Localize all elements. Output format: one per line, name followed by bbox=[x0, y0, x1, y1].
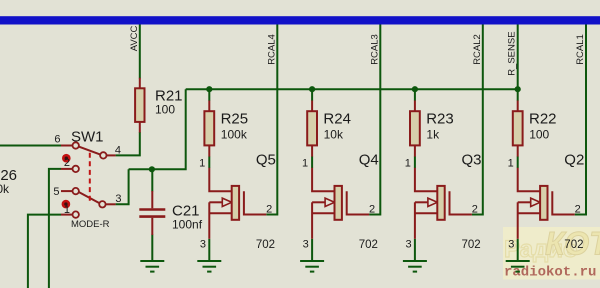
svg-text:MODE-R: MODE-R bbox=[71, 219, 110, 230]
svg-text:Q5: Q5 bbox=[256, 152, 276, 169]
svg-text:6: 6 bbox=[54, 133, 60, 145]
wire R22 bottom to Q2 pin bbox=[517, 156, 519, 168]
wire C21 bottom to ground bbox=[151, 235, 153, 261]
junction C21/switch node bbox=[149, 166, 155, 172]
wire RCAL2 vertical from bus to Q3 gate bbox=[472, 25, 483, 215]
lever pole B bbox=[79, 192, 100, 203]
svg-text:SW1: SW1 bbox=[71, 129, 104, 146]
junction R24 top bbox=[309, 86, 315, 92]
svg-text:RCAL1: RCAL1 bbox=[575, 34, 586, 65]
switch SW1 (DPDT) bbox=[61, 146, 116, 215]
svg-text:1: 1 bbox=[199, 158, 205, 170]
svg-text:2: 2 bbox=[64, 157, 70, 169]
actuator dot A bbox=[62, 154, 71, 163]
wire Q3 source to ground bbox=[414, 239, 416, 260]
wire R23 bottom to Q3 pin bbox=[414, 156, 416, 168]
resistor R21 bbox=[135, 78, 144, 133]
svg-text:1: 1 bbox=[405, 158, 411, 170]
pin 1 stub bbox=[61, 214, 73, 216]
transistor Q5 bbox=[209, 168, 266, 239]
ground Q4 bbox=[300, 261, 324, 272]
transistor Q3 bbox=[415, 168, 472, 239]
resistor R25 bbox=[204, 101, 214, 157]
svg-text:4: 4 bbox=[115, 145, 121, 157]
svg-text:2: 2 bbox=[266, 203, 272, 215]
resistor R23 bbox=[410, 101, 420, 157]
wire AVCC vertical from bus to R21 bbox=[139, 25, 141, 79]
svg-text:702: 702 bbox=[462, 239, 481, 251]
ground C21 bbox=[140, 261, 164, 272]
svg-text:10k: 10k bbox=[324, 128, 344, 142]
terminal circle pin1 bbox=[73, 211, 79, 217]
svg-text:2: 2 bbox=[575, 203, 581, 215]
svg-text:1: 1 bbox=[302, 158, 308, 170]
junction R23 top bbox=[412, 86, 418, 92]
junction R22 / R_SENSE bbox=[515, 86, 521, 92]
svg-text:R24: R24 bbox=[323, 111, 351, 128]
pin 2 stub bbox=[61, 168, 73, 170]
svg-text:RCAL3: RCAL3 bbox=[369, 34, 380, 65]
wire switch pin2 left and down to bottom edge bbox=[49, 169, 61, 288]
svg-text:2: 2 bbox=[369, 203, 375, 215]
svg-text:Q4: Q4 bbox=[359, 152, 379, 169]
bus (blue) bbox=[0, 16, 600, 24]
junction R25 top bbox=[206, 86, 212, 92]
wire Q2 source to ground bbox=[517, 239, 519, 260]
wire R23 top stub bbox=[414, 89, 416, 101]
pin 6 stub bbox=[61, 145, 73, 147]
wire R25 top stub bbox=[208, 89, 210, 101]
svg-text:3: 3 bbox=[508, 239, 514, 251]
svg-text:RCAL2: RCAL2 bbox=[472, 34, 483, 65]
svg-text:2: 2 bbox=[472, 203, 478, 215]
wire R24 bottom to Q4 pin bbox=[311, 156, 313, 168]
terminal circle pin5 bbox=[73, 188, 79, 194]
svg-text:R_SENSE: R_SENSE bbox=[507, 31, 518, 75]
capacitor C21 bbox=[139, 191, 165, 235]
wire R21 bottom to switch pin4 pole bbox=[116, 132, 140, 155]
wire R_SENSE vertical from bus to rail junction bbox=[517, 25, 519, 90]
terminal circle pin2 bbox=[73, 166, 79, 172]
svg-text:100nf: 100nf bbox=[172, 218, 203, 232]
wire R25 bottom to Q5 gate-drive pin bbox=[208, 156, 210, 168]
svg-text:3: 3 bbox=[200, 239, 206, 251]
wire RCAL4 vertical from bus to Q5 gate bbox=[266, 25, 277, 215]
pole 3 stub bbox=[106, 203, 116, 205]
terminal circle pole4 bbox=[100, 152, 106, 158]
wire R24 top stub bbox=[311, 89, 313, 101]
terminal circle pin6 bbox=[73, 142, 79, 148]
wire switch pin1 left and down to bottom edge bbox=[28, 215, 61, 288]
ground Q3 bbox=[403, 261, 427, 272]
resistor R22 bbox=[513, 101, 523, 157]
svg-text:R25: R25 bbox=[221, 111, 249, 128]
svg-text:3: 3 bbox=[303, 239, 309, 251]
svg-text:R23: R23 bbox=[426, 111, 454, 128]
wire RCAL3 vertical from bus to Q4 gate bbox=[369, 25, 380, 215]
watermark radiokot bbox=[503, 226, 600, 281]
svg-text:Q3: Q3 bbox=[462, 152, 482, 169]
resistor R24 bbox=[307, 101, 317, 157]
wire junction row horizontal to rail riser bbox=[129, 89, 186, 169]
svg-text:1k: 1k bbox=[426, 128, 440, 142]
svg-text:702: 702 bbox=[256, 239, 275, 251]
terminal circle pole3 bbox=[99, 201, 105, 207]
transistor Q2 bbox=[518, 168, 575, 239]
mechanical link dashed bbox=[89, 153, 91, 202]
lever pole A bbox=[79, 147, 101, 155]
svg-text:100: 100 bbox=[529, 128, 549, 142]
pin 5 stub bbox=[61, 190, 73, 192]
svg-text:RCAL4: RCAL4 bbox=[266, 34, 277, 65]
wire C21 top connection bbox=[151, 169, 153, 191]
wire RCAL1 vertical from bus to Q2 gate bbox=[575, 25, 586, 215]
pole 4 stub bbox=[107, 154, 116, 156]
wire Q4 source to ground bbox=[311, 239, 313, 260]
wire Q5 source to ground bbox=[208, 239, 210, 260]
svg-text:100k: 100k bbox=[221, 128, 248, 142]
transistor Q4 bbox=[312, 168, 369, 239]
wire R22 top stub bbox=[517, 89, 519, 101]
svg-text:AVCC: AVCC bbox=[129, 25, 140, 51]
wire switch pin3 pole up to junction row bbox=[116, 169, 129, 204]
wire switch pin6 to left edge bbox=[0, 145, 61, 147]
svg-text:702: 702 bbox=[359, 239, 378, 251]
ground Q2 bbox=[506, 261, 530, 272]
wire top rail horizontal bbox=[186, 88, 518, 90]
svg-text:3: 3 bbox=[115, 193, 121, 205]
svg-text:1: 1 bbox=[508, 158, 514, 170]
svg-text:100: 100 bbox=[155, 102, 175, 116]
svg-text:100k: 100k bbox=[0, 182, 10, 196]
actuator dot B bbox=[62, 200, 71, 209]
svg-text:R22: R22 bbox=[529, 111, 557, 128]
svg-text:1: 1 bbox=[64, 204, 70, 216]
svg-text:3: 3 bbox=[405, 239, 411, 251]
svg-text:Q2: Q2 bbox=[564, 152, 584, 169]
svg-text:5: 5 bbox=[53, 186, 59, 198]
ground Q5 bbox=[197, 261, 221, 272]
svg-text:702: 702 bbox=[564, 239, 583, 251]
